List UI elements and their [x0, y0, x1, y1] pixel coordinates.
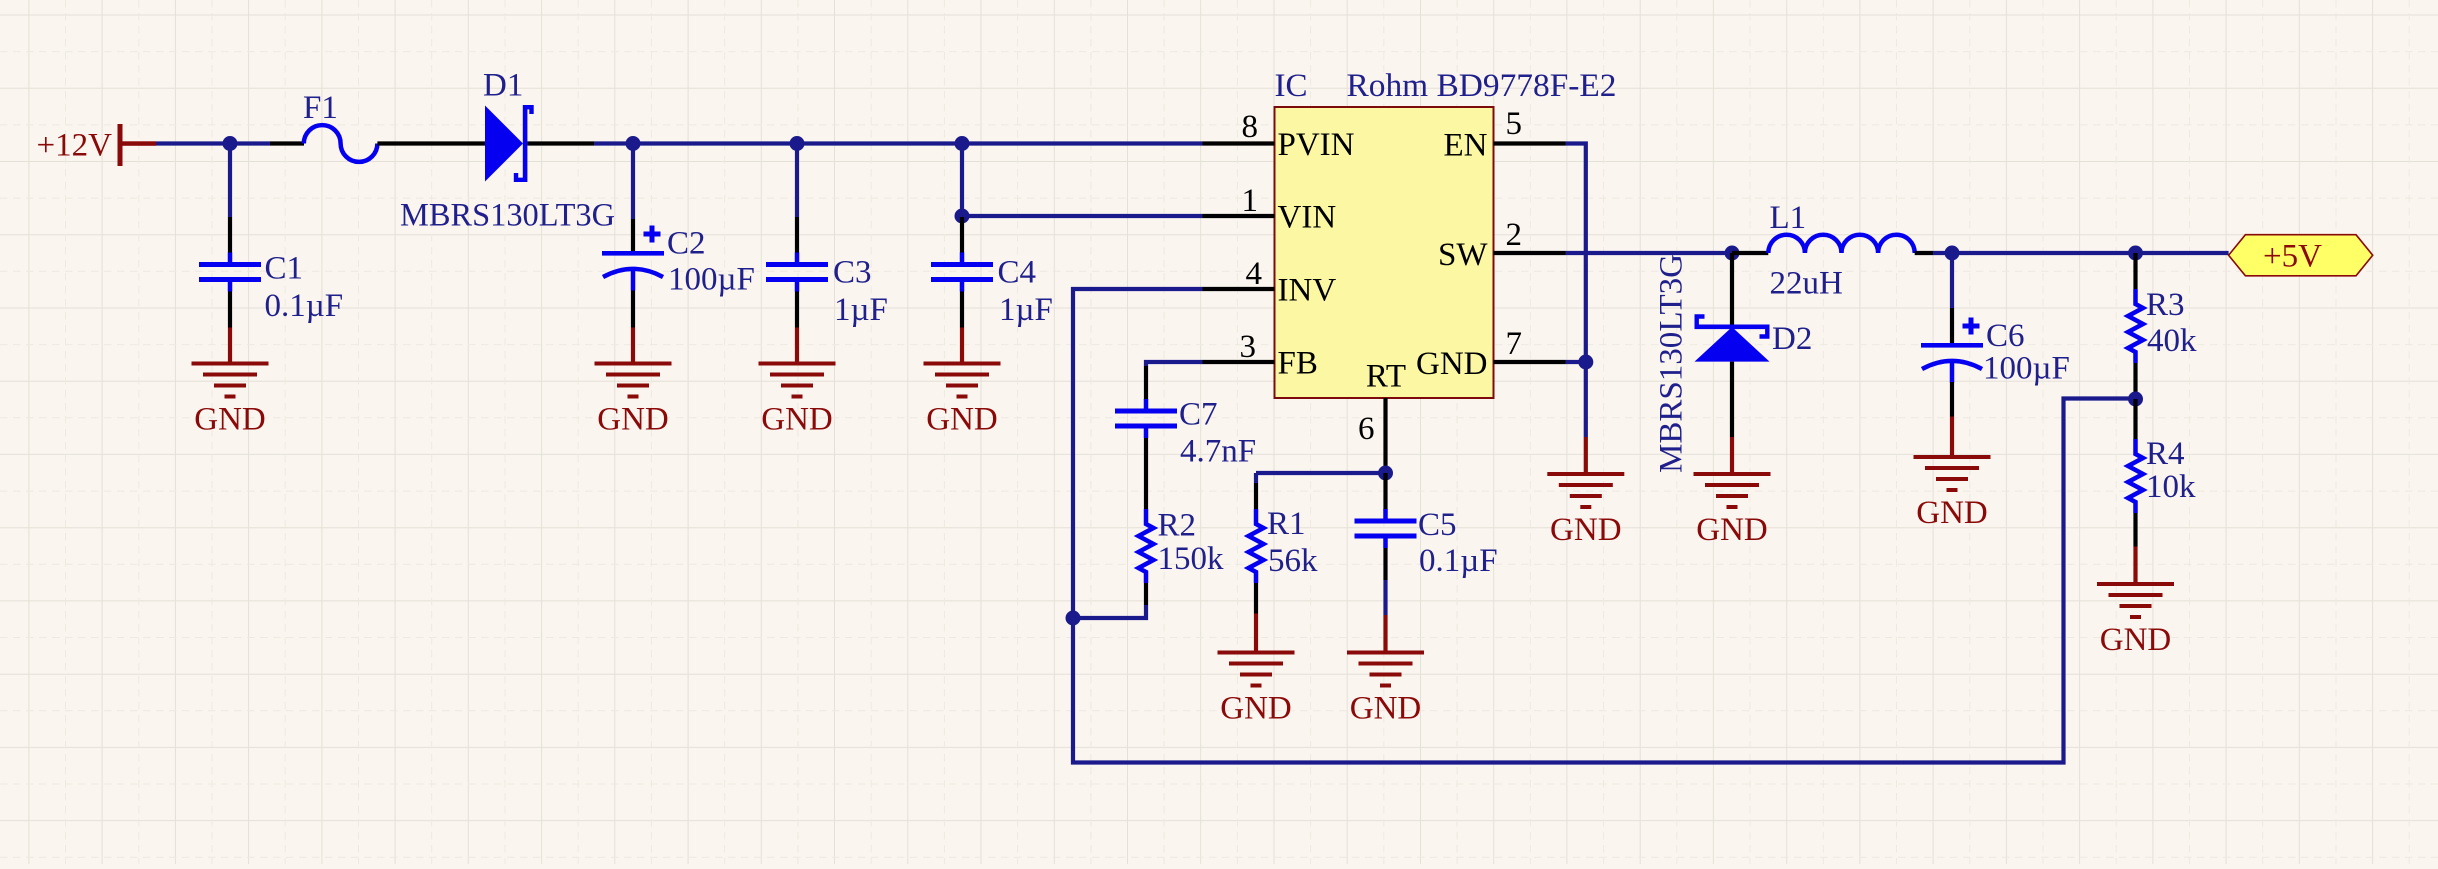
svg-text:MBRS130LT3G: MBRS130LT3G	[1654, 254, 1690, 473]
svg-text:GND: GND	[1416, 346, 1488, 382]
svg-text:RT: RT	[1366, 359, 1406, 395]
svg-text:C6: C6	[1986, 318, 2025, 354]
ground GND D2	[1694, 472, 1771, 548]
wire R2 to feedback	[1073, 605, 1146, 618]
svg-text:GND: GND	[1916, 495, 1988, 531]
svg-text:GND: GND	[597, 402, 669, 438]
svg-text:2: 2	[1506, 217, 1523, 253]
svg-text:VIN: VIN	[1278, 200, 1337, 236]
ground GND C4	[924, 362, 1001, 438]
svg-text:4.7nF: 4.7nF	[1180, 434, 1256, 470]
svg-text:100µF: 100µF	[1983, 351, 2070, 387]
ground GND C1	[192, 362, 269, 438]
capacitor C5	[1355, 509, 1417, 548]
ground GND R1	[1218, 651, 1295, 727]
svg-text:0.1µF: 0.1µF	[265, 288, 344, 324]
svg-text:C4: C4	[998, 255, 1037, 291]
wire +12V rail	[156, 141, 270, 145]
svg-text:GND: GND	[761, 402, 833, 438]
svg-text:FB: FB	[1278, 346, 1318, 382]
node junction C3 tap	[790, 136, 805, 151]
pin 8 PVIN stub	[1203, 141, 1275, 145]
svg-text:C2: C2	[667, 226, 706, 262]
power port +5V	[2229, 235, 2373, 276]
wire C2 top	[631, 144, 635, 220]
svg-text:40k: 40k	[2147, 323, 2197, 359]
pin R1 top	[1254, 483, 1258, 509]
svg-text:+5V: +5V	[2263, 239, 2322, 275]
pin C1 bottom	[228, 292, 232, 328]
svg-text:EN: EN	[1444, 128, 1488, 164]
diode D1	[485, 105, 532, 182]
pin C6 top	[1950, 308, 1954, 343]
wire C5 to gnd	[1383, 580, 1387, 615]
svg-text:56k: 56k	[1268, 543, 1318, 579]
svg-text:1µF: 1µF	[834, 292, 888, 328]
ground GND R4	[2097, 582, 2174, 658]
wire gnd stem D2	[1730, 437, 1734, 474]
capacitor C7	[1115, 399, 1177, 438]
pin C5 bottom	[1383, 548, 1387, 580]
wire gnd stem C2	[631, 328, 635, 364]
node junction at C1 tap	[223, 136, 238, 151]
wire F1 left pin	[270, 141, 304, 145]
svg-text:150k: 150k	[1158, 541, 1225, 577]
op-amp U1 IC body Rohm BD9778F-E2	[1275, 107, 1494, 398]
svg-text:5: 5	[1506, 106, 1523, 142]
wire C4 top	[960, 144, 964, 218]
wire FB	[1146, 362, 1203, 366]
svg-text:D1: D1	[483, 68, 523, 104]
wire C6 top	[1950, 253, 1954, 308]
pin C7 top	[1144, 366, 1148, 400]
svg-text:1: 1	[1242, 183, 1259, 219]
capacitor C6 (polarized)	[1921, 318, 1983, 383]
svg-text:F1: F1	[303, 90, 338, 126]
svg-text:3: 3	[1240, 329, 1257, 365]
wire RT to R1	[1256, 471, 1386, 475]
pin 2 SW stub	[1494, 251, 1566, 255]
diode D2	[1695, 317, 1770, 362]
svg-text:100µF: 100µF	[668, 262, 755, 298]
pin R1 bottom	[1254, 583, 1258, 614]
svg-text:10k: 10k	[2146, 469, 2196, 505]
wire INV net	[1073, 289, 2133, 763]
resistor R3	[2128, 289, 2143, 363]
pin 1 VIN stub	[1203, 214, 1275, 218]
svg-text:6: 6	[1358, 411, 1375, 447]
capacitor C1	[199, 253, 261, 292]
pin 5 EN stub	[1494, 141, 1566, 145]
pin C4 bottom	[960, 292, 964, 328]
node junction VIN tap	[955, 209, 970, 224]
pin R2 bottom	[1144, 583, 1148, 605]
pin 4 INV stub	[1203, 287, 1275, 291]
svg-text:GND: GND	[926, 402, 998, 438]
pin 3 FB stub	[1203, 360, 1275, 364]
pin C2 bottom	[631, 291, 635, 328]
wire gnd stem C1	[228, 328, 232, 364]
wire gnd stem EN	[1584, 437, 1588, 474]
svg-text:1µF: 1µF	[999, 292, 1053, 328]
ground GND C2	[595, 362, 672, 438]
svg-text:GND: GND	[1550, 512, 1622, 548]
pin 7 GND stub	[1494, 360, 1566, 364]
node junction D2 tap	[1725, 246, 1740, 261]
pin R3 top	[2133, 253, 2137, 289]
ground GND C6	[1914, 455, 1991, 531]
node junction R2 tap	[1066, 611, 1081, 626]
wire C1 top	[228, 144, 232, 218]
svg-text:Rohm BD9778F-E2: Rohm BD9778F-E2	[1347, 68, 1617, 104]
pin C5 top	[1383, 473, 1387, 510]
pin C3 top	[795, 217, 799, 253]
ground GND EN	[1547, 472, 1624, 548]
inductor L1	[1768, 235, 1914, 253]
svg-text:GND: GND	[1220, 691, 1292, 727]
pin C4 top	[960, 217, 964, 253]
pin D2 bottom	[1730, 362, 1734, 437]
svg-text:INV: INV	[1278, 273, 1337, 309]
pin D2 top	[1730, 253, 1734, 325]
pin L1 left	[1732, 251, 1768, 255]
svg-text:4: 4	[1246, 256, 1263, 292]
resistor R2	[1139, 509, 1154, 583]
svg-text:22uH: 22uH	[1770, 266, 1843, 302]
svg-text:+12V: +12V	[37, 128, 113, 164]
svg-text:SW: SW	[1438, 237, 1488, 273]
svg-text:GND: GND	[1350, 691, 1422, 727]
wire gnd stem C5	[1383, 615, 1387, 653]
pin C7 bottom	[1144, 438, 1148, 474]
svg-text:7: 7	[1506, 326, 1523, 362]
wire EN	[1566, 144, 1586, 438]
svg-text:C3: C3	[833, 255, 872, 291]
wire gnd stem C6	[1950, 417, 1954, 458]
wire gnd stem C4	[960, 328, 964, 364]
wire F1 to D1	[377, 141, 485, 145]
wire gnd stem R1	[1254, 614, 1258, 653]
node junction RT	[1378, 466, 1393, 481]
wire VIN	[962, 214, 1203, 218]
power port +12V	[37, 124, 156, 166]
pin R4 bottom	[2133, 513, 2137, 547]
wire rail D1 to pin8	[594, 141, 1203, 145]
capacitor C4	[931, 253, 993, 292]
pin C1 top	[228, 217, 232, 253]
resistor R4	[2128, 439, 2143, 513]
svg-text:PVIN: PVIN	[1278, 127, 1355, 163]
capacitor C2 (polarized)	[602, 226, 664, 291]
svg-text:MBRS130LT3G: MBRS130LT3G	[400, 198, 615, 234]
pin R3 bottom	[2133, 363, 2137, 399]
svg-text:GND: GND	[194, 402, 266, 438]
svg-text:GND: GND	[2100, 622, 2172, 658]
wire D1 to node	[527, 141, 594, 145]
node junction R3 tap	[2128, 246, 2143, 261]
svg-text:R2: R2	[1158, 508, 1197, 544]
node junction C4 tap	[955, 136, 970, 151]
svg-text:GND: GND	[1696, 512, 1768, 548]
wire L1 to +5V port	[1933, 251, 2229, 255]
wire C3 top	[795, 144, 799, 218]
svg-text:L1: L1	[1770, 200, 1807, 236]
ground GND C5	[1347, 651, 1424, 727]
pin C6 bottom	[1950, 382, 1954, 417]
pin R2 top	[1144, 474, 1148, 509]
pin C2 top	[631, 219, 635, 251]
fuse F1	[304, 125, 378, 162]
node junction pin7/EN	[1578, 355, 1593, 370]
wire gnd stem C3	[795, 328, 799, 364]
svg-text:IC: IC	[1275, 68, 1308, 104]
wire R1 top	[1254, 473, 1258, 483]
node junction C2 tap	[626, 136, 641, 151]
ground GND C3	[759, 362, 836, 438]
node junction R3/R4 feedback	[2128, 392, 2143, 407]
pin C3 bottom	[795, 292, 799, 328]
pin 6 RT stub	[1383, 398, 1387, 470]
wire SW	[1566, 251, 1733, 255]
svg-text:D2: D2	[1772, 321, 1812, 357]
svg-text:C1: C1	[265, 251, 304, 287]
svg-text:C7: C7	[1179, 397, 1218, 433]
wire GND7	[1566, 360, 1586, 364]
svg-text:C5: C5	[1418, 507, 1457, 543]
pin L1 right	[1915, 251, 1933, 255]
wire gnd stem R4	[2133, 547, 2137, 585]
svg-text:8: 8	[1242, 109, 1259, 145]
svg-text:0.1µF: 0.1µF	[1419, 543, 1498, 579]
pin R4 top	[2133, 399, 2137, 439]
capacitor C3	[766, 253, 828, 292]
node junction C6 tap	[1945, 246, 1960, 261]
svg-text:R4: R4	[2146, 436, 2185, 472]
svg-text:R3: R3	[2146, 287, 2185, 323]
svg-text:R1: R1	[1267, 506, 1306, 542]
resistor R1	[1249, 509, 1264, 583]
